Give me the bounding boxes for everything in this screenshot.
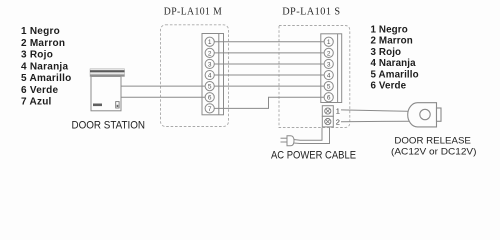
terminal S pin 2 <box>324 48 333 57</box>
terminal M pin 7 <box>205 104 214 113</box>
terminal S pin 6 <box>324 93 333 102</box>
svg-text:6 Verde: 6 Verde <box>371 81 407 92</box>
terminal M pin 4 <box>205 70 214 79</box>
svg-text:3 Rojo: 3 Rojo <box>371 47 402 58</box>
svg-text:4 Naranja: 4 Naranja <box>371 58 417 69</box>
terminal S pin 3 <box>324 59 333 68</box>
button <box>116 102 119 108</box>
svg-text:AC POWER CABLE: AC POWER CABLE <box>271 150 356 162</box>
svg-text:2: 2 <box>327 50 331 57</box>
svg-text:7 Azul: 7 Azul <box>21 97 52 108</box>
svg-text:2 Marron: 2 Marron <box>371 36 413 47</box>
speaker bar <box>93 104 102 107</box>
door station wire a <box>122 85 206 87</box>
svg-text:2: 2 <box>208 50 212 57</box>
svg-text:5: 5 <box>327 84 331 91</box>
svg-text:3: 3 <box>327 61 331 68</box>
svg-text:3 Rojo: 3 Rojo <box>21 50 53 61</box>
svg-text:2 Marron: 2 Marron <box>21 38 65 49</box>
svg-text:1: 1 <box>336 106 340 115</box>
svg-text:3: 3 <box>208 61 212 68</box>
svg-text:4: 4 <box>208 72 212 79</box>
right wire color list <box>371 24 419 91</box>
svg-text:5 Amarillo: 5 Amarillo <box>371 69 419 80</box>
door release wire 2 <box>341 120 413 123</box>
svg-text:DOOR STATION: DOOR STATION <box>72 120 146 132</box>
wire 2 M->S <box>214 52 324 54</box>
svg-text:7: 7 <box>208 106 212 113</box>
wire 4 M->S <box>214 74 324 76</box>
svg-text:DOOR RELEASE: DOOR RELEASE <box>394 136 471 146</box>
AC screw terminal 1 <box>322 106 333 117</box>
terminal S pin 5 <box>324 82 333 91</box>
svg-text:6: 6 <box>208 95 212 102</box>
svg-text:4 Naranja: 4 Naranja <box>21 61 68 72</box>
svg-text:5: 5 <box>208 84 212 91</box>
svg-text:5 Amarillo: 5 Amarillo <box>21 73 71 84</box>
terminal M pin 6 <box>205 93 214 102</box>
striped cap <box>90 69 125 77</box>
door station <box>90 69 125 111</box>
svg-text:1: 1 <box>327 39 331 46</box>
unit M terminal strip <box>202 34 224 115</box>
left wire color list <box>21 26 71 107</box>
door station wire b <box>122 96 206 98</box>
svg-text:4: 4 <box>327 72 331 79</box>
terminal S pin 1 <box>324 37 333 46</box>
wire 3 M->S <box>214 63 324 65</box>
unit S terminal strip <box>321 34 342 103</box>
svg-text:DP-LA101 S: DP-LA101 S <box>282 7 340 18</box>
unit M dashed enclosure <box>161 25 229 127</box>
svg-text:1: 1 <box>208 39 212 46</box>
terminal M pin 1 <box>205 37 214 46</box>
wire AC cable to screw terminal 2 <box>294 128 330 144</box>
wire 1 M->S <box>214 41 324 43</box>
terminal M pin 2 <box>205 48 214 57</box>
svg-text:6: 6 <box>327 95 331 102</box>
wire 7 M->S6 jog <box>214 97 324 108</box>
terminal M pin 3 <box>205 59 214 68</box>
svg-text:DP-LA101 M: DP-LA101 M <box>164 6 223 17</box>
svg-text:1 Negro: 1 Negro <box>371 24 408 35</box>
svg-text:6 Verde: 6 Verde <box>21 85 59 96</box>
unit S dashed enclosure <box>279 26 350 128</box>
wire 5 M->S <box>214 85 324 87</box>
door release lock <box>408 103 441 127</box>
svg-text:1 Negro: 1 Negro <box>21 26 60 37</box>
AC screw terminal 2 <box>322 116 333 127</box>
body <box>91 77 121 111</box>
svg-text:(AC12V or DC12V): (AC12V or DC12V) <box>391 147 477 157</box>
AC power plug <box>281 136 295 146</box>
svg-text:2: 2 <box>336 118 340 127</box>
wire AC cable to screw terminal 1 <box>294 128 323 141</box>
terminal M pin 5 <box>205 82 214 91</box>
door release wire 1 <box>341 110 413 112</box>
terminal S pin 4 <box>324 70 333 79</box>
